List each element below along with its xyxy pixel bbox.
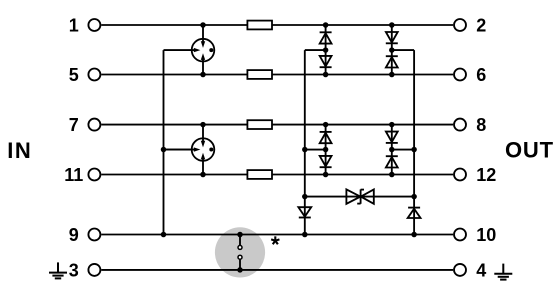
junction row1/stack A bbox=[323, 22, 329, 28]
svg-text:IN: IN bbox=[7, 138, 32, 163]
wire TVS row bbox=[305, 196, 414, 198]
wire tap upper-left stack midpoint bbox=[305, 49, 326, 51]
pin label 10 bbox=[476, 225, 496, 245]
wire tap upper-right stack midpoint bbox=[392, 49, 414, 51]
resistor R3 bbox=[247, 120, 272, 129]
pin label 7 bbox=[69, 115, 79, 135]
junction rail B/TVS row bbox=[302, 194, 308, 200]
wire tap lower-left stack midpoint bbox=[305, 149, 326, 151]
junction row5/stack B bbox=[389, 72, 395, 78]
wire row 3-4 bbox=[101, 269, 453, 271]
junction upper stack A midpoint bbox=[323, 47, 329, 53]
suppressor diode pair D1/D2 (upper-left stack) bbox=[320, 32, 332, 67]
svg-text:3: 3 bbox=[69, 260, 79, 280]
pin label 11 bbox=[64, 165, 83, 185]
wire rail gas-tube third electrodes (x=163.5) bbox=[163, 50, 165, 234]
junction row7/GDT U2 bbox=[200, 122, 206, 128]
junction lower stack A midpoint bbox=[323, 147, 329, 153]
wire lower-left stack vertical bbox=[325, 125, 327, 175]
isolating spark gap F1 bbox=[238, 235, 242, 270]
junction row11/stack B bbox=[389, 172, 395, 178]
junction rail C/lower tap bbox=[411, 147, 417, 153]
gray highlight circle behind isolating spark gap bbox=[215, 227, 265, 277]
terminal 6 (right) bbox=[454, 69, 466, 81]
pin label 1 bbox=[69, 15, 79, 35]
svg-text:8: 8 bbox=[476, 115, 486, 135]
junction row1/GDT U1 bbox=[200, 22, 206, 28]
wire tap lower-right stack midpoint bbox=[392, 149, 414, 151]
junction row11/GDT U2 bbox=[200, 172, 206, 178]
pin label 3 bbox=[69, 260, 79, 280]
terminal 3 (left) bbox=[88, 264, 100, 276]
wire row 1-2 bbox=[101, 24, 453, 26]
pin label 9 bbox=[69, 225, 79, 245]
junction rail/GDT U2 tap bbox=[161, 147, 167, 153]
pin label 6 bbox=[476, 65, 486, 85]
resistor R2 bbox=[247, 70, 272, 79]
diode D10 (right bus, cathode up) bbox=[408, 208, 421, 218]
wire row 7-8 bbox=[101, 124, 453, 126]
resistor R4 bbox=[247, 170, 272, 179]
bidirectional TVS diode D11 bbox=[346, 189, 373, 203]
svg-text:OUT: OUT bbox=[505, 138, 554, 163]
junction row7/stack A bbox=[323, 122, 329, 128]
terminal 5 (left) bbox=[88, 69, 100, 81]
gas discharge tube U2 (3-electrode arrester) bbox=[164, 124, 215, 174]
pin label 4 bbox=[476, 260, 486, 280]
junction row9/rail B bbox=[302, 232, 308, 238]
asterisk marker bbox=[271, 236, 279, 244]
terminal 8 (right) bbox=[454, 119, 466, 131]
junction row1/stack B bbox=[389, 22, 395, 28]
ground symbol (left, at terminal 3) bbox=[49, 262, 67, 278]
wire row 9-10 bbox=[101, 234, 453, 236]
terminal 12 (right) bbox=[454, 169, 466, 181]
suppressor diode pair D3/D4 (upper-right stack) bbox=[386, 32, 398, 68]
junction rail B/lower tap bbox=[302, 147, 308, 153]
terminal 4 (right) bbox=[454, 264, 466, 276]
pin label 12 bbox=[476, 165, 496, 185]
svg-text:12: 12 bbox=[476, 165, 496, 185]
terminal 2 (right) bbox=[454, 19, 466, 31]
svg-text:4: 4 bbox=[476, 260, 486, 280]
svg-text:5: 5 bbox=[69, 65, 79, 85]
ground symbol (right, at terminal 4) bbox=[494, 264, 512, 280]
svg-text:6: 6 bbox=[476, 65, 486, 85]
junction row5/GDT U1 bbox=[200, 72, 206, 78]
junction rail C/TVS row bbox=[411, 194, 417, 200]
wire row 5-6 bbox=[101, 74, 453, 76]
terminal 10 (right) bbox=[454, 229, 466, 241]
junction upper stack B midpoint bbox=[389, 47, 395, 53]
pin label 2 bbox=[476, 15, 486, 35]
svg-text:7: 7 bbox=[69, 115, 79, 135]
gas discharge tube U1 (3-electrode arrester) bbox=[164, 25, 215, 75]
svg-text:2: 2 bbox=[476, 15, 486, 35]
terminal 9 (left) bbox=[88, 229, 100, 241]
junction row5/stack A bbox=[323, 72, 329, 78]
wire upper-left stack vertical bbox=[325, 25, 327, 75]
terminal 1 (left) bbox=[88, 19, 100, 31]
suppressor diode pair D5/D6 (lower-left stack) bbox=[320, 132, 332, 167]
junction row11/stack A bbox=[323, 172, 329, 178]
junction row9/rail A bbox=[161, 232, 167, 238]
svg-text:10: 10 bbox=[476, 225, 496, 245]
svg-text:1: 1 bbox=[69, 15, 79, 35]
wire row 11-12 bbox=[101, 174, 453, 176]
junction row9/rail C bbox=[411, 232, 417, 238]
junction lower stack B midpoint bbox=[389, 147, 395, 153]
wire rail right protection bus (x=414.1) bbox=[413, 50, 415, 234]
terminal 7 (left) bbox=[88, 119, 100, 131]
diode D9 (left bus, cathode down) bbox=[298, 207, 311, 217]
label IN bbox=[7, 138, 32, 163]
pin label 5 bbox=[69, 65, 79, 85]
junction row7/stack B bbox=[389, 122, 395, 128]
junction row9/spark gap bbox=[237, 232, 243, 238]
junction row3/spark gap bbox=[237, 267, 243, 273]
label OUT bbox=[505, 138, 554, 163]
pin label 8 bbox=[476, 115, 486, 135]
resistor R1 bbox=[247, 21, 272, 30]
svg-text:9: 9 bbox=[69, 225, 79, 245]
wire lower-right stack vertical bbox=[391, 125, 393, 175]
wire upper-right stack vertical bbox=[391, 25, 393, 75]
terminal 11 (left) bbox=[88, 169, 100, 181]
svg-text:11: 11 bbox=[64, 165, 83, 185]
wire rail left protection bus (x=304.8) bbox=[304, 50, 306, 234]
suppressor diode pair D7/D8 (lower-right stack) bbox=[386, 132, 398, 168]
wire GDT U2 third electrode tap bbox=[164, 149, 194, 151]
